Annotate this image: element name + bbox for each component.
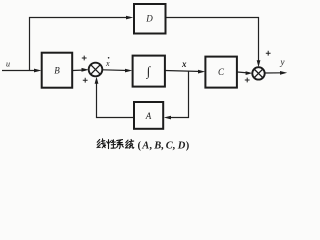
svg-text:): )	[186, 141, 190, 152]
svg-text:y: y	[280, 57, 285, 67]
svg-text:,: ,	[149, 141, 152, 152]
svg-text:D: D	[145, 14, 153, 24]
svg-text:D: D	[177, 141, 186, 152]
svg-text:(: (	[138, 141, 142, 152]
svg-text:C: C	[218, 67, 225, 77]
svg-text:A: A	[141, 141, 149, 152]
svg-text:A: A	[145, 111, 152, 121]
svg-text:,: ,	[161, 141, 164, 152]
svg-text:B: B	[153, 141, 161, 152]
svg-text:x: x	[181, 59, 187, 69]
svg-text:x: x	[105, 59, 110, 68]
svg-text:B: B	[54, 66, 60, 76]
svg-text:u: u	[6, 60, 10, 69]
svg-text:,: ,	[173, 141, 176, 152]
